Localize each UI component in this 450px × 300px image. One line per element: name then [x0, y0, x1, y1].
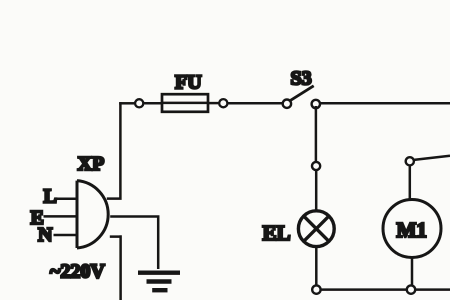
- svg-text:XP: XP: [78, 153, 105, 175]
- wire: fuse to right terminal: [208, 102, 219, 105]
- svg-text:L: L: [44, 185, 57, 207]
- node: bus junction under M1: [407, 285, 415, 293]
- fuse FU body: [162, 94, 208, 112]
- pin L lead: [56, 198, 77, 201]
- pin E lead: [44, 215, 78, 218]
- wire: slanted lead from M1 terminal to right edge: [414, 156, 450, 160]
- wire: fuse terminal to switch S3: [228, 102, 283, 105]
- node: connector terminal above M1: [406, 157, 414, 165]
- switch S3 left contact: [283, 100, 291, 108]
- wire: left vertical from top bus down to plug upper jog: [107, 102, 121, 199]
- node: terminal left of fuse: [135, 99, 143, 107]
- lamp EL: [298, 211, 334, 247]
- motor M1: [383, 200, 441, 258]
- wire: bottom bus: [321, 288, 450, 291]
- svg-text:N: N: [38, 224, 53, 246]
- wire: terminal to fuse: [143, 102, 162, 105]
- wire: motor bottom down to bus: [411, 259, 414, 286]
- node: bus junction under EL: [312, 285, 320, 293]
- wire: connector to lamp top: [315, 170, 318, 210]
- node: connector terminal above EL: [312, 162, 320, 170]
- svg-text:M1: M1: [397, 218, 427, 242]
- svg-text:FU: FU: [175, 71, 202, 93]
- wire: E (earth) from plug tip right then down to ground: [110, 217, 158, 270]
- switch S3 right contact: [312, 100, 320, 108]
- pin N lead: [54, 234, 78, 237]
- switch S3 arm: [291, 86, 314, 101]
- wire: top bus left segment from corner to fuse terminal: [119, 102, 135, 105]
- wire: terminal down to motor top: [409, 166, 412, 200]
- wire: lamp bottom down to bus: [315, 247, 318, 286]
- plug XP body: [77, 181, 108, 248]
- node: terminal right of fuse: [219, 99, 227, 107]
- ground: [138, 273, 180, 291]
- wire: N from plug lower jog down to bottom edge: [110, 235, 121, 300]
- svg-text:~220V: ~220V: [50, 261, 105, 283]
- svg-text:EL: EL: [263, 221, 291, 245]
- wire: from S3 down to connector: [315, 106, 318, 162]
- wire: top bus from switch to right edge: [320, 102, 450, 105]
- wire: fuse mid line: [162, 102, 208, 105]
- svg-text:S3: S3: [291, 68, 312, 90]
